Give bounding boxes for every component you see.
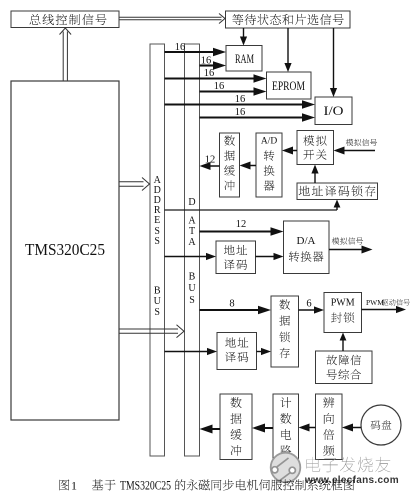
wire: data bus to RAM, 16 bits	[200, 56, 227, 70]
svg-text:16: 16	[214, 81, 225, 92]
wire: D/A analog signal output, label 模拟信号	[329, 237, 373, 253]
svg-text:U: U	[188, 283, 196, 294]
wire: PWM drive signal output, label PWM驱动信号	[362, 298, 410, 313]
wire: wait-state box to RAM	[240, 28, 247, 46]
svg-text:www.elecfans.com: www.elecfans.com	[304, 475, 399, 486]
box: data buffer 2 数据缓冲 (vertical)	[220, 394, 252, 460]
caption: 图1 基于TMS320C25的永磁同步电机伺服控制系统框图	[59, 479, 354, 493]
box: RAM	[226, 46, 262, 72]
svg-text:I/O: I/O	[324, 104, 344, 118]
wire: address bus to address decoder 1	[165, 253, 217, 260]
wire: wait-state box to EPROM	[284, 28, 291, 72]
svg-text:S: S	[154, 307, 160, 318]
wire: fault signal synthesis to PWM blocking	[340, 333, 347, 352]
box: I/O	[315, 97, 352, 125]
hollow arrow: bus control signal to wait-state box (right)	[120, 14, 226, 24]
svg-text:TMS320C25: TMS320C25	[120, 479, 171, 493]
wire: address decoder 2 to data latch	[257, 348, 272, 355]
svg-text:A: A	[188, 237, 196, 248]
svg-text:D: D	[188, 197, 195, 208]
wire: encoder disc to discriminator	[342, 424, 361, 432]
hollow arrow: TMS320C25 to address bus	[120, 178, 150, 191]
wire: counting circuit to data buffer 2	[252, 424, 273, 433]
watermark: 电子发烧友 text	[306, 457, 390, 472]
box: TMS320C25 processor	[11, 81, 119, 420]
hollow arrow: TMS320C25 to bus control signal (up)	[60, 28, 72, 81]
svg-text:B: B	[154, 286, 161, 297]
svg-text:1: 1	[71, 479, 77, 493]
wire: data buffer 1 to data bus, 12 bits	[200, 155, 220, 171]
wire: discriminator to counting circuit	[299, 424, 316, 432]
svg-text:16: 16	[201, 56, 212, 67]
box: wait-state and chip-select signals 等待状态和片选信号	[226, 11, 351, 28]
watermark: www.elecfans.com	[304, 475, 399, 486]
svg-text:TMS320C25: TMS320C25	[25, 240, 105, 259]
wire: address bus to address decoder 2	[165, 348, 218, 355]
node: encoder disc 码盘 (circle)	[361, 405, 401, 445]
box: D/A converter D/A转换器	[284, 221, 330, 274]
bus: DATA BUS vertical strip	[185, 44, 200, 456]
wire: address bus to RAM, 16 bits	[165, 42, 227, 56]
bus: ADDRESS BUS vertical strip	[150, 44, 165, 456]
svg-text:A: A	[188, 216, 196, 227]
wire: A/D converter to data buffer 1	[240, 162, 257, 170]
hollow arrow: TMS320C25 to data bus	[120, 325, 185, 338]
box: counting circuit 计数电路 (vertical)	[273, 394, 299, 460]
box: direction/frequency discriminator 辨向倍频 (vertical)	[316, 394, 343, 460]
wire: address bus to EPROM, 16 bits	[165, 68, 267, 83]
svg-text:B: B	[189, 272, 196, 283]
wire: data bus to EPROM, 16 bits	[200, 81, 267, 96]
svg-text:U: U	[154, 296, 162, 307]
wire: address decode latch to analog switch	[311, 165, 318, 184]
watermark: elecfans logo circle	[271, 453, 301, 484]
box: A/D converter A/D转换器 (vertical)	[256, 133, 282, 197]
wire: analog switch to A/D converter	[282, 147, 297, 155]
wire: wait-state box to I/O	[330, 28, 337, 97]
box: address decoder 2 地址译码	[217, 333, 257, 370]
box: data latch 数据锁存 (vertical)	[271, 296, 299, 367]
svg-text:PWM: PWM	[366, 298, 384, 307]
box: data buffer 1 数据缓冲 (vertical)	[220, 133, 240, 197]
svg-text:16: 16	[235, 107, 246, 118]
svg-text:E: E	[154, 215, 160, 226]
wire: data buffer 2 to data bus	[200, 425, 221, 434]
svg-text:S: S	[189, 295, 195, 306]
svg-text:A/D: A/D	[261, 137, 278, 147]
wire: address bus to I/O, 16 bits	[165, 94, 316, 109]
wire: data bus to D/A converter, 12 bits	[200, 219, 284, 236]
svg-text:RAM: RAM	[235, 51, 254, 66]
svg-text:D/A: D/A	[297, 235, 316, 247]
box: analog switch 模拟开关	[297, 131, 334, 165]
svg-text:16: 16	[235, 94, 246, 105]
wire: address bus to address decode latch	[165, 200, 341, 211]
svg-text:8: 8	[229, 299, 234, 310]
svg-text:PWM: PWM	[331, 298, 355, 309]
wire: data latch to PWM blocking, 6 bits	[299, 299, 325, 314]
wire: address decoder 1 to D/A converter	[256, 253, 284, 260]
box: address decoder 1 地址译码	[216, 241, 256, 274]
svg-text:16: 16	[204, 68, 215, 79]
wire: analog signal input to analog switch, label 模拟信号	[334, 139, 378, 155]
box: address decode latch 地址译码锁存	[297, 183, 378, 200]
box: bus control signal 总线控制信号	[11, 11, 119, 28]
box: fault signal synthesis 故障信号综合	[316, 351, 373, 384]
box: PWM blocking PWM封锁	[324, 293, 362, 333]
svg-text:12: 12	[205, 155, 216, 166]
svg-text:12: 12	[236, 219, 247, 230]
wire: data bus to I/O, 16 bits	[200, 107, 316, 122]
svg-text:EPROM: EPROM	[272, 79, 305, 93]
svg-text:16: 16	[175, 42, 186, 53]
wire: data bus to data latch, 8 bits	[200, 299, 272, 315]
box: EPROM	[267, 72, 312, 99]
svg-text:S: S	[154, 236, 160, 247]
svg-text:T: T	[189, 226, 195, 237]
svg-text:6: 6	[306, 299, 311, 310]
